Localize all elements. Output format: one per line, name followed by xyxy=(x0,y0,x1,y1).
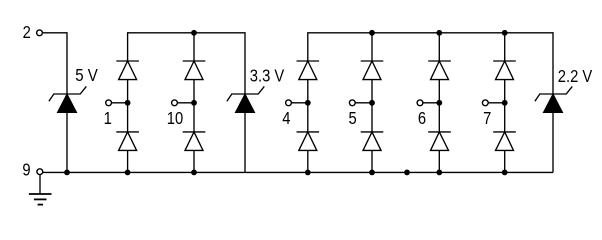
zener diode D15 2.2V xyxy=(535,86,572,172)
svg-text:9: 9 xyxy=(22,160,30,180)
wire terminal 5 stub xyxy=(355,102,372,104)
wire terminal 6 stub xyxy=(423,102,440,104)
pin label 4 xyxy=(282,109,290,129)
wire terminal 10 stub xyxy=(177,102,194,104)
junction dot bottom rail branch 5 xyxy=(369,170,375,176)
junction node pin7 xyxy=(502,100,508,106)
svg-text:4: 4 xyxy=(282,109,290,129)
junction dot bottom rail branch 6 xyxy=(436,170,442,176)
terminal 7 xyxy=(482,100,488,106)
pin label 7 xyxy=(483,109,491,129)
terminal 4 xyxy=(286,100,292,106)
zener diode D6 3.3V xyxy=(227,86,264,172)
terminal 1 xyxy=(106,100,112,106)
diode D10 (bottom, pin 5 branch) xyxy=(361,103,384,173)
diode D3 (bottom, pin 1 branch) xyxy=(116,103,139,173)
svg-text:2: 2 xyxy=(23,23,31,43)
zener diode 2.2 V label xyxy=(558,67,593,87)
terminal 2 xyxy=(37,30,43,36)
junction dot on top rail at branch 10 xyxy=(191,30,197,36)
terminal 6 xyxy=(417,100,423,106)
svg-text:1: 1 xyxy=(104,109,112,129)
pin label 6 xyxy=(418,109,426,129)
terminal 9 xyxy=(37,169,43,175)
diode D14 (bottom, pin 7 branch) xyxy=(493,103,516,173)
svg-text:3.3 V: 3.3 V xyxy=(250,66,285,86)
junction dot bottom rail branch 7 xyxy=(502,170,508,176)
diode D9 (top, pin 5 branch) xyxy=(361,33,384,103)
junction dot bottom rail branch 4 xyxy=(305,170,311,176)
diode D11 (top, pin 6 branch) xyxy=(428,33,451,103)
diode D8 (bottom, pin 4 branch) xyxy=(297,103,320,173)
junction dot bottom rail branch 10 xyxy=(191,170,197,176)
junction dot top rail branch 6 xyxy=(436,30,442,36)
group 2 top rail wire xyxy=(308,33,553,94)
wire from terminal 2 to node xyxy=(42,33,67,94)
diode D13 (top, pin 7 branch) xyxy=(493,33,516,103)
terminal 5 xyxy=(349,100,355,106)
zener diode 3.3 V label xyxy=(250,66,285,86)
diode D12 (bottom, pin 6 branch) xyxy=(428,103,451,173)
bottom rail wire xyxy=(43,171,553,173)
svg-text:7: 7 xyxy=(483,109,491,129)
junction dot top rail branch 5 xyxy=(369,30,375,36)
svg-text:10: 10 xyxy=(167,109,183,129)
wire terminal 4 stub xyxy=(291,102,307,104)
diode D4 (top, pin 10 branch) xyxy=(183,61,206,103)
junction node pin10 xyxy=(191,100,197,106)
pin label 10 xyxy=(167,109,183,129)
pin label 2 xyxy=(23,23,31,43)
svg-text:2.2 V: 2.2 V xyxy=(558,67,593,87)
svg-text:5: 5 xyxy=(348,109,356,129)
zener diode D1 5V xyxy=(49,86,86,172)
junction dot top rail branch 7 xyxy=(502,30,508,36)
group 1 top rail wire xyxy=(128,33,245,94)
junction dot bottom rail branch 1 xyxy=(125,170,131,176)
zener diode 5 V label xyxy=(75,65,98,85)
pin label 5 xyxy=(348,109,356,129)
junction dot bottom rail mid xyxy=(404,170,410,176)
diode D2 (top, pin 1 branch) xyxy=(116,61,139,103)
svg-text:5 V: 5 V xyxy=(75,65,98,85)
terminal 10 xyxy=(172,100,178,106)
pin label 9 xyxy=(22,160,30,180)
junction node pin6 xyxy=(436,100,442,106)
wire top rail to diode D2 xyxy=(193,33,195,61)
junction node pin5 xyxy=(369,100,375,106)
diode D5 (bottom, pin 10 branch) xyxy=(183,103,206,173)
junction node pin4 xyxy=(305,100,311,106)
pin label 1 xyxy=(104,109,112,129)
svg-text:6: 6 xyxy=(418,109,426,129)
wire terminal 1 stub xyxy=(111,102,127,104)
diode D7 (top, pin 4 branch) xyxy=(297,61,320,103)
junction dot bottom rail zener 5V xyxy=(64,170,70,176)
ground xyxy=(29,174,52,204)
wire terminal 7 stub xyxy=(488,102,505,104)
junction node pin1 xyxy=(125,100,131,106)
